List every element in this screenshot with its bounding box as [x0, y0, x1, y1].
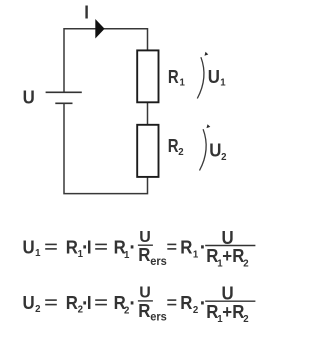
svg-text:U: U — [208, 66, 220, 87]
voltage arc U2 arrowhead — [207, 124, 211, 128]
svg-text:I: I — [84, 2, 89, 23]
resistor R2 — [137, 125, 158, 177]
svg-text:U: U — [23, 237, 35, 258]
svg-text:ers: ers — [150, 255, 167, 267]
svg-text:2: 2 — [35, 304, 41, 315]
svg-text:2: 2 — [221, 152, 227, 163]
svg-text:U: U — [23, 292, 35, 313]
svg-text:R: R — [168, 135, 179, 156]
svg-text:2: 2 — [243, 258, 249, 269]
svg-text:2: 2 — [193, 305, 199, 316]
svg-text:R: R — [168, 66, 179, 87]
svg-text:ers: ers — [150, 311, 167, 323]
svg-text:+: + — [222, 246, 232, 267]
svg-text:2: 2 — [178, 147, 184, 158]
formula 1: equals b — [95, 243, 107, 245]
voltage arc U2 — [200, 129, 207, 170]
svg-text:R: R — [66, 292, 78, 313]
svg-text:·: · — [129, 292, 135, 315]
voltage arc U1 arrowhead — [205, 52, 209, 56]
svg-text:1: 1 — [220, 77, 226, 88]
wire: left-bottom segment (battery minus terminal down and across to R2) — [64, 103, 148, 193]
formula 1: fraction bar a — [138, 244, 153, 246]
svg-text:R: R — [180, 237, 192, 258]
svg-text:U: U — [209, 140, 221, 161]
formula 2: equals c — [167, 299, 176, 301]
svg-text:·: · — [200, 292, 206, 315]
formula 2: equals a — [45, 299, 57, 301]
svg-text:R: R — [138, 300, 150, 321]
svg-text:+: + — [222, 301, 232, 322]
formula 2: fraction bar b — [205, 300, 255, 302]
wire: left+top segment (battery plus terminal up and across to R1) — [64, 29, 148, 93]
svg-text:I: I — [87, 237, 92, 258]
svg-text:1: 1 — [193, 249, 199, 260]
formula 2: fraction bar a — [138, 300, 153, 302]
wire: node between R1 and R2 — [147, 102, 149, 125]
resistor R1 — [137, 50, 158, 102]
svg-text:·: · — [200, 236, 206, 259]
formula 1: equals c — [167, 243, 176, 245]
svg-text:R: R — [66, 237, 78, 258]
svg-text:U: U — [23, 87, 35, 108]
formula 2: equals b — [95, 299, 107, 301]
svg-text:U: U — [139, 285, 151, 302]
voltage arc U1 — [197, 57, 204, 98]
svg-text:I: I — [87, 292, 92, 313]
svg-text:·: · — [129, 236, 135, 259]
svg-text:R: R — [180, 292, 192, 313]
svg-text:U: U — [139, 229, 151, 246]
svg-text:1: 1 — [180, 77, 186, 88]
formula 1: fraction bar b — [205, 245, 255, 247]
voltage source U: short plate — [55, 102, 72, 104]
current arrow I on top wire — [95, 19, 104, 39]
svg-text:R: R — [138, 244, 150, 265]
svg-text:2: 2 — [243, 314, 249, 325]
svg-text:1: 1 — [35, 248, 41, 259]
voltage source U: long plate — [46, 91, 82, 93]
formula 1: equals a — [45, 243, 57, 245]
